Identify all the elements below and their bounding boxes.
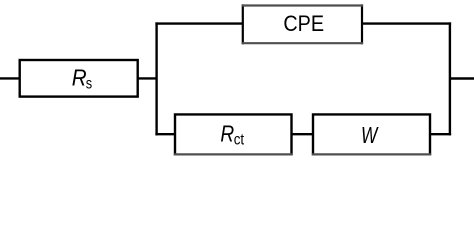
svg-text:CPE: CPE <box>283 11 324 36</box>
svg-text:R: R <box>72 65 87 91</box>
wire top rail right segment <box>362 22 451 24</box>
resistor Rs <box>20 60 138 97</box>
resistor Rct <box>174 113 293 155</box>
label Rs <box>72 65 93 93</box>
wire input left <box>0 77 20 79</box>
node left rail <box>155 22 157 135</box>
wire top rail left segment <box>155 22 242 24</box>
wire bottom rail right segment <box>430 133 451 135</box>
svg-text:s: s <box>86 75 93 92</box>
svg-text:ct: ct <box>234 132 245 149</box>
wire bottom rail left segment <box>155 133 175 135</box>
svg-text:W: W <box>361 122 379 148</box>
wire output right <box>450 77 474 79</box>
svg-text:R: R <box>220 121 234 147</box>
resistor W Warburg <box>312 113 431 155</box>
node right rail <box>449 22 451 135</box>
capacitor CPE box <box>242 4 363 44</box>
wire Rct to W <box>292 133 314 135</box>
wire Rs to left node <box>138 77 157 79</box>
label Rct <box>220 121 244 149</box>
